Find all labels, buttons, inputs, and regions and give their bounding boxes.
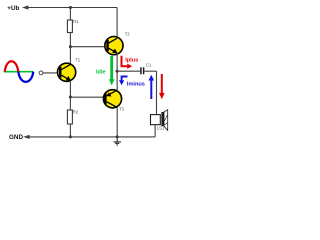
wire rail to R1 [69, 8, 71, 21]
transistor T2 (NPN upper output) [105, 37, 123, 55]
transistor T3 (PNP lower output) [103, 90, 121, 108]
wire node A to T2 base [70, 46, 107, 48]
svg-text:R2: R2 [73, 109, 79, 114]
wire ground rail with left arrowhead [23, 135, 155, 139]
transistor T1 (NPN driver) [58, 63, 76, 81]
wire node C to capacitor [117, 70, 140, 72]
svg-text:LS1: LS1 [157, 125, 165, 130]
current arrow speaker up (blue) [149, 75, 155, 99]
sine axis (green) [4, 71, 34, 73]
svg-text:GND: GND [9, 134, 23, 141]
wire T2 emitter down to node C [116, 53, 118, 71]
wire capacitor to speaker corner [144, 70, 156, 72]
wire T3 emitter up to node C [116, 71, 118, 90]
wire T3 collector down to ground rail [116, 108, 118, 137]
svg-text:Iplus: Iplus [125, 58, 138, 64]
resistor R1 [67, 20, 72, 33]
wire node B down to R2 [69, 97, 71, 110]
speaker LS1 [151, 110, 168, 131]
wire T1 emitter down to node B [69, 81, 71, 98]
svg-text:R1: R1 [73, 19, 79, 24]
wire top supply rail with left arrowhead [22, 5, 117, 9]
current arrow Iminus (blue, L-shaped) [119, 77, 128, 86]
input terminal circle [39, 71, 43, 75]
node junction R2/ground rail [69, 135, 72, 138]
current arrow Idle (green) [109, 56, 115, 86]
sine wave source icon [4, 61, 34, 82]
current arrow speaker down (red) [159, 74, 165, 99]
node A junction [69, 45, 72, 48]
svg-text:T3: T3 [119, 107, 125, 112]
node B junction [69, 96, 72, 99]
svg-text:T2: T2 [125, 32, 131, 37]
capacitor C1 [141, 67, 144, 74]
svg-text:Idle: Idle [96, 70, 106, 76]
node junction rail/R1 [69, 6, 72, 9]
sine positive half (red) [5, 61, 19, 71]
current arrow Iplus (red, L-shaped) [122, 56, 133, 69]
wire node B to T3 base [70, 96, 105, 98]
svg-text:+Ub: +Ub [7, 5, 19, 12]
sine negative half (blue) [18, 72, 33, 82]
wire node A down to T1 collector [69, 47, 71, 65]
resistor R2 [67, 110, 72, 124]
svg-text:Iminus: Iminus [127, 82, 145, 88]
svg-text:T1: T1 [75, 58, 81, 63]
wire R1 to node A [69, 33, 71, 47]
wire speaker bottom to ground rail [154, 125, 156, 137]
wire T2 collector drop from rail [116, 8, 118, 39]
wire input to T1 base [43, 72, 60, 74]
wire R2 to ground rail [69, 124, 71, 137]
node junction T3/ground rail [116, 135, 119, 138]
svg-text:C1: C1 [146, 63, 152, 68]
wire down to speaker top [156, 71, 158, 114]
node C junction [116, 70, 119, 73]
ground symbol [114, 137, 122, 145]
